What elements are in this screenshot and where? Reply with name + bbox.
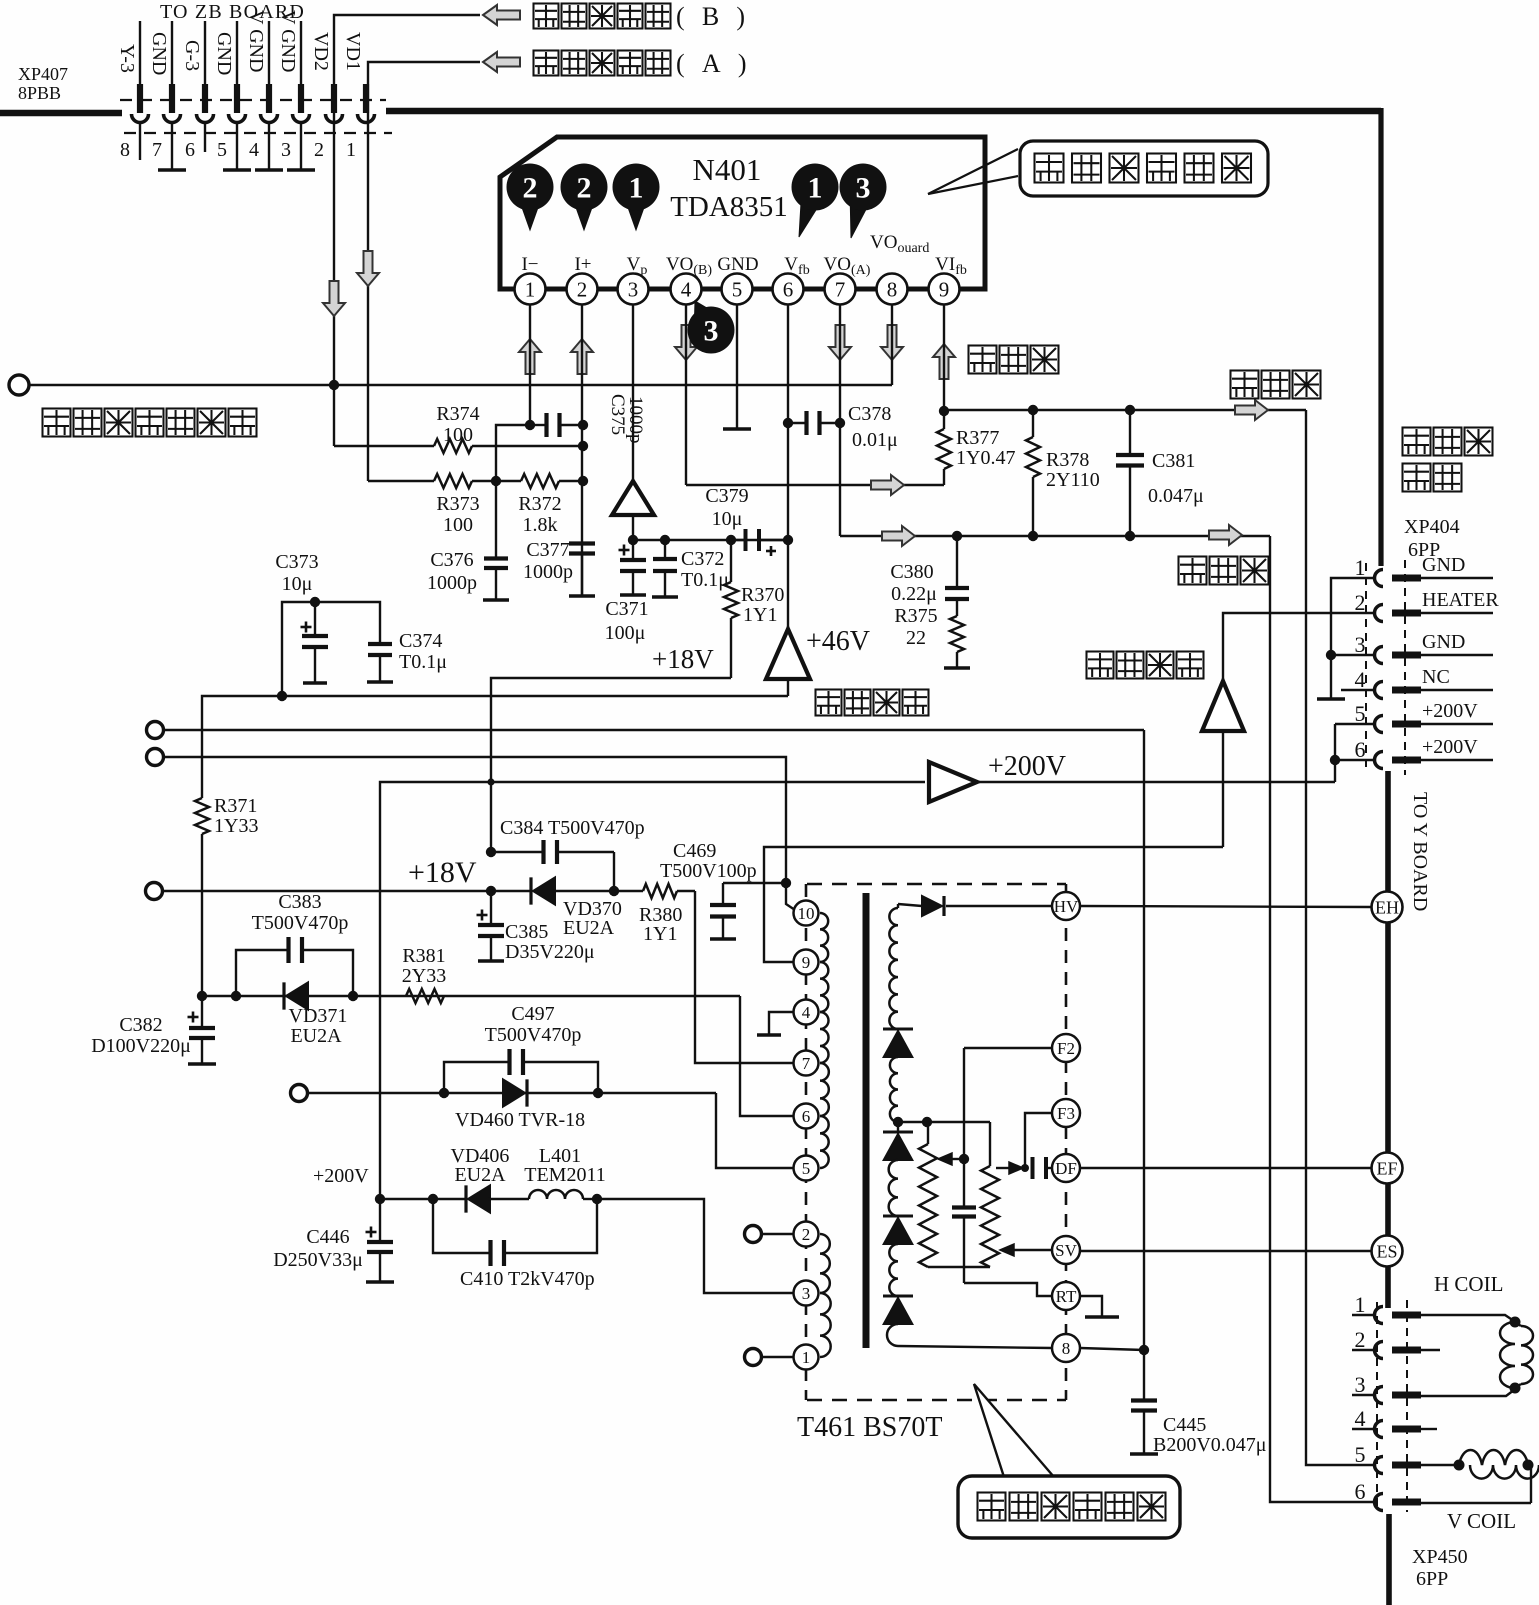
focus divider bottom row [928, 1266, 990, 1268]
svg-text:+18V: +18V [408, 856, 477, 889]
svg-text:6: 6 [185, 139, 195, 161]
wire F3 to DF junction [1025, 1113, 1052, 1168]
svg-text:C377: C377 [526, 539, 569, 561]
transformer primary winding 9-4 [820, 962, 828, 1012]
label field output top (chang shuchu) [1231, 371, 1259, 399]
capacitor C377 1000p on pin2 line to ground [569, 541, 595, 545]
+200V rail from C446 node to XP404 pins 5-6 [380, 782, 925, 1199]
svg-text:( B ): ( B ) [676, 2, 751, 31]
node C446 top [375, 1194, 385, 1204]
wire IC pin 6 down [787, 304, 789, 540]
XP450 pin 6 [1375, 1494, 1384, 1511]
XP404 pin 4 NC [1375, 682, 1384, 699]
RT ground [1080, 1296, 1102, 1316]
transformer T461 pin 7 circle [794, 1051, 819, 1076]
wire F2 net vertical [963, 1048, 965, 1159]
svg-text:3: 3 [628, 278, 639, 302]
node R374 right on pin2 line [578, 441, 588, 451]
terminal ES circle [1372, 1236, 1403, 1267]
svg-text:EU2A: EU2A [454, 1164, 506, 1186]
transformer T461 pin 2 circle [794, 1222, 819, 1247]
svg-text:6PP: 6PP [1416, 1568, 1448, 1590]
svg-text:D100V220μ: D100V220μ [91, 1035, 191, 1057]
field output top descent to XP450 pin 5 [1306, 410, 1374, 1465]
HV rectifier diode pointing right [898, 904, 922, 906]
transformer T461 pin 9 circle [794, 950, 819, 975]
spurious junction dot at +18V crossing [487, 778, 494, 785]
transformer primary winding 6-5 [820, 1116, 829, 1168]
node C372 top [660, 535, 670, 545]
svg-text:Y-3: Y-3 [116, 44, 138, 73]
capacitor C446 D250V33u electrolytic [379, 1199, 381, 1240]
wire VD2 from XP407 pin 2 up to field drive B [334, 15, 480, 121]
capacitor C379 10u electrolytic horizontal [731, 539, 744, 541]
diode VD371 EU2A pointing left [282, 982, 285, 1009]
svg-text:10: 10 [798, 904, 815, 923]
IC internal balloon 2 above pin 2 [575, 205, 593, 230]
IC internal balloon 2 above pin 1 [521, 205, 539, 230]
transformer secondary winding section 4 [889, 1244, 898, 1296]
wire IC pin 1 down to C375 row [529, 304, 531, 425]
svg-text:1: 1 [802, 1348, 811, 1367]
diode VD370 EU2A pointing left [491, 890, 531, 892]
transformer primary winding 2-3 [820, 1234, 830, 1293]
wire F2 horizontal [964, 1047, 1052, 1049]
block arrow field drive signal A [483, 52, 520, 72]
screen potentiometer (SV) [989, 1122, 991, 1166]
IC N401 pin 6 [773, 274, 804, 305]
capacitor C372 T0.1u [664, 540, 666, 557]
svg-text:1: 1 [1355, 555, 1366, 580]
terminal input 3 (+18V rail) [146, 883, 163, 900]
svg-text:C371: C371 [605, 598, 648, 620]
svg-text:1000p: 1000p [625, 396, 646, 444]
svg-text:0.22μ: 0.22μ [891, 583, 937, 605]
svg-text:2: 2 [1355, 1327, 1366, 1352]
svg-text:1.8k: 1.8k [523, 514, 558, 536]
svg-text:VD460 TVR-18: VD460 TVR-18 [455, 1109, 585, 1131]
wire DF to EF [1080, 1167, 1372, 1169]
block arrow down on VD2 line [323, 281, 345, 316]
capacitor C376 1000p to ground [495, 481, 497, 557]
wire terminal2 toward flyback pin10 [164, 757, 786, 883]
IC N401 pin 2 [567, 274, 598, 305]
resistor R375 22 vertical [950, 616, 964, 652]
svg-text:TEM2011: TEM2011 [524, 1164, 605, 1186]
XP407 pin 3 (V GND) [300, 21, 302, 85]
svg-text:4: 4 [1355, 667, 1366, 692]
resistor R371 1Y33 vertical [195, 798, 209, 834]
H COIL inductor [1500, 1322, 1515, 1388]
svg-text:1000p: 1000p [427, 572, 477, 594]
node C497 right [593, 1088, 603, 1098]
XP404 pins 1-3 ground wire [1331, 578, 1374, 698]
+200V rail rise to XP404 pin6 [1334, 760, 1336, 782]
svg-text:100μ: 100μ [605, 622, 646, 644]
H COIL wiring [1421, 1315, 1514, 1321]
svg-text:C372: C372 [681, 548, 724, 570]
svg-text:1000p: 1000p [523, 561, 573, 583]
rectifier diode D1 in secondary [883, 1028, 913, 1031]
svg-text:7: 7 [835, 278, 846, 302]
transformer terminal column dashed line [1065, 884, 1068, 1400]
wire IC pin 4 down [685, 304, 687, 485]
svg-text:NC: NC [1422, 666, 1450, 688]
wire jog into flyback pin 10 [786, 883, 795, 910]
svg-text:C375: C375 [607, 394, 628, 435]
svg-text:2: 2 [577, 172, 592, 205]
svg-text:3: 3 [281, 139, 291, 161]
capacitor C380 0.22u [956, 536, 958, 586]
svg-text:H COIL: H COIL [1434, 1272, 1503, 1296]
block arrow down from IC pin 4 [675, 325, 697, 360]
svg-text:3: 3 [1355, 1372, 1366, 1397]
node C383 left [231, 991, 241, 1001]
svg-text:F2: F2 [1057, 1039, 1075, 1058]
svg-text:5: 5 [732, 278, 743, 302]
transformer terminal RT circle [1052, 1282, 1080, 1310]
svg-text:GND: GND [1422, 554, 1465, 576]
thick wire below XP450 pin 6 [1386, 1514, 1392, 1605]
wire IC pin 8 down to protection line [891, 304, 893, 385]
capacitor C384 T500V470p [491, 851, 542, 853]
XP404 pin 2 HEATER [1375, 605, 1384, 622]
label filament supply dengsi gongdian [1087, 652, 1114, 679]
block arrow field drive signal B [483, 5, 520, 25]
rectifier diode D4 in secondary [883, 1295, 913, 1298]
capacitor C382 D100V220u electrolytic [201, 996, 203, 1026]
heater net from XP404 pin2 [1223, 613, 1374, 681]
wire link C375 row to R373 row [496, 425, 530, 481]
node C497 left [439, 1088, 449, 1098]
svg-text:C384 T500V470p: C384 T500V470p [500, 817, 645, 839]
thick ground bus main segment [386, 108, 1381, 115]
wire pin6 line down to +46V triangle and retrace supply line [787, 540, 789, 629]
svg-text:2: 2 [1355, 590, 1366, 615]
svg-text:5: 5 [802, 1159, 811, 1178]
svg-text:C378: C378 [848, 403, 891, 425]
screen pot wiper arrow to DF cap [996, 1167, 1010, 1169]
svg-text:V COIL: V COIL [1447, 1509, 1516, 1533]
wire IC pin 9 down [943, 304, 945, 412]
svg-text:3: 3 [704, 315, 719, 348]
svg-text:6: 6 [1355, 737, 1366, 762]
node focus divider top [922, 1117, 932, 1127]
svg-text:( A ): ( A ) [676, 49, 753, 78]
svg-text:TO Y BOARD: TO Y BOARD [1409, 792, 1431, 911]
svg-text:100: 100 [443, 424, 473, 446]
XP450 pin 3 [1375, 1387, 1384, 1404]
wire +18V rail from terminal3 [163, 890, 491, 892]
retrace supply line (nicheng gongdian) [202, 696, 788, 798]
supply triangle filament (dengsi gongdian) [1202, 681, 1244, 731]
svg-text:6: 6 [802, 1107, 811, 1126]
wire IC pin 7 down [839, 304, 841, 536]
svg-text:HV: HV [1054, 897, 1079, 916]
thick wire to Y board [1385, 771, 1391, 1308]
svg-text:T500V470p: T500V470p [485, 1024, 582, 1046]
svg-text:XP407: XP407 [18, 64, 68, 84]
node Vp row left [628, 535, 638, 545]
label field failure protection control [43, 409, 71, 437]
wire IC pin 5 to ground [736, 304, 738, 428]
IC internal balloon 3 above pin 7 with VOguard label [850, 203, 867, 238]
diode VD406 EU2A pointing left [433, 1198, 466, 1200]
wire C445 vertical line down [1143, 730, 1145, 1399]
svg-text:EU2A: EU2A [563, 917, 615, 939]
IC N401 pin 5 [722, 274, 753, 305]
svg-text:1: 1 [629, 172, 644, 205]
ground bar at IC pin 5 [723, 427, 751, 431]
node F3/DF junction [1021, 1164, 1029, 1172]
XP404 pins 5-6 +200V link [1335, 723, 1374, 725]
svg-text:T0.1μ: T0.1μ [399, 651, 447, 673]
label to CRT circuit (qu xianxiang dianlu) [1403, 428, 1431, 456]
capacitor C374 T0.1u [368, 642, 392, 646]
+18V feed wire from R370 bottom [491, 678, 731, 852]
svg-text:N401: N401 [693, 152, 762, 187]
node L401 right [592, 1194, 602, 1204]
svg-text:I+: I+ [574, 254, 591, 275]
svg-text:4: 4 [802, 1003, 811, 1022]
XP450 pin 1 [1375, 1307, 1384, 1324]
XP404 pin 5 +200V [1375, 716, 1384, 733]
capacitor C497 T500V470p loop [444, 1062, 508, 1093]
terminal input 1 (to flyback pin8 net) [147, 722, 164, 739]
wire field failure protection control to IC pin 8 [29, 384, 892, 386]
node C375 right [578, 420, 588, 430]
transformer secondary winding section 2 [890, 1057, 898, 1122]
svg-text:VD1: VD1 [342, 32, 364, 71]
label field drive signal (A) [534, 51, 559, 76]
wire terminal1 to C445 line [164, 729, 1144, 731]
XP450 dashed pin columns [1376, 1302, 1378, 1512]
XP404 pin 6 +200V [1375, 752, 1384, 769]
wire to HV terminal [946, 905, 1052, 907]
svg-text:+200V: +200V [313, 1165, 369, 1187]
rectifier diode D3 in secondary [883, 1215, 913, 1218]
resistor R378 2Y110 vertical [1032, 410, 1034, 437]
svg-text:C385: C385 [505, 921, 548, 943]
node wiper to F2 line [959, 1154, 969, 1164]
transformer primary winding 10-9 [820, 913, 828, 962]
svg-text:1: 1 [808, 172, 823, 205]
thick bus corner down to XP404 [1378, 108, 1383, 566]
XP450 pin 2 [1375, 1342, 1384, 1359]
svg-text:GND: GND [717, 254, 758, 275]
terminal EH circle [1372, 892, 1403, 923]
svg-text:10μ: 10μ [712, 508, 743, 530]
terminal field failure protection control [9, 375, 29, 395]
wire R380 down to flyback pin 7 [695, 891, 794, 1063]
callout box line output transformer (hang huisao bianyaqi) [974, 1384, 1054, 1477]
supply triangle +200V pointing right [929, 762, 977, 802]
IC N401 pin 8 [877, 274, 908, 305]
svg-text:R381: R381 [402, 945, 445, 967]
capacitor C469 T500V100p [722, 883, 724, 903]
label field output bottom (chang shuchu) [1179, 557, 1207, 585]
IC internal balloon 1 above pin 6 [799, 202, 818, 237]
XP407 pin 1 (VD1) [363, 84, 369, 113]
svg-text:C445: C445 [1163, 1414, 1206, 1436]
svg-text:F3: F3 [1057, 1104, 1075, 1123]
svg-text:R373: R373 [436, 493, 479, 515]
wire terminal8 to C445 line [1080, 1348, 1144, 1350]
svg-text:5: 5 [217, 139, 227, 161]
svg-text:VD371: VD371 [289, 1005, 348, 1027]
wire IC pin 2 down to C377 [581, 304, 583, 596]
block arrow down from IC pin 8 [881, 325, 903, 360]
svg-text:EH: EH [1375, 898, 1399, 918]
svg-text:5: 5 [1355, 1442, 1366, 1467]
svg-text:V GND: V GND [277, 10, 299, 72]
XP407 pin 8 (Y-3) [139, 21, 141, 85]
DF coupling capacitor [1031, 1157, 1035, 1179]
svg-text:22: 22 [906, 627, 926, 649]
node terminal8 C445 junction [1139, 1345, 1149, 1355]
label retrace supply nicheng gongdian [816, 690, 842, 716]
node VD370 left junction [486, 886, 496, 896]
svg-text:C382: C382 [119, 1014, 162, 1036]
XP407 pin 4 (V GND) [268, 21, 270, 85]
capacitor C385 D35V220u electrolytic [490, 891, 492, 923]
svg-text:XP450: XP450 [1412, 1546, 1468, 1568]
svg-text:6: 6 [1355, 1479, 1366, 1504]
svg-text:XP404: XP404 [1404, 516, 1460, 538]
diode VD460 TVR-18 pointing right [503, 1079, 525, 1106]
svg-text:2: 2 [523, 172, 538, 205]
svg-text:3: 3 [802, 1284, 811, 1303]
svg-text:R375: R375 [894, 605, 937, 627]
transformer terminal SV circle [1052, 1236, 1080, 1264]
field output top row [944, 409, 1306, 411]
svg-text:5: 5 [1355, 701, 1366, 726]
op-amp U1 IC N401 TDA8351 outline [500, 137, 985, 289]
row C382-C383-VD371-R381 [202, 995, 740, 997]
terminal EF circle [1372, 1153, 1403, 1184]
transformer T461 pin 4 circle [794, 1000, 819, 1025]
svg-text:TDA8351: TDA8351 [670, 191, 788, 223]
transformer terminal HV circle [1052, 892, 1080, 920]
internal capacitor in focus pack [952, 1205, 976, 1209]
svg-text:C446: C446 [306, 1226, 349, 1248]
svg-text:VD2: VD2 [310, 32, 332, 71]
wire C469 top connection [723, 882, 786, 884]
svg-text:C410 T2kV470p: C410 T2kV470p [460, 1268, 595, 1290]
IC N401 pin 7 [825, 274, 856, 305]
wire secondary bottom to terminal 8 [898, 1346, 1052, 1348]
capacitor C445 B200V0.047u [1131, 1398, 1157, 1402]
svg-text:1Y1: 1Y1 [643, 923, 677, 945]
transformer T461 core bar [863, 893, 870, 1348]
block arrow up into IC pin 9 [933, 344, 955, 379]
terminal input 4 (boost to VD460) [291, 1085, 308, 1102]
svg-text:EF: EF [1376, 1159, 1397, 1179]
capacitor C410 T2kV470p loop [433, 1199, 489, 1253]
svg-text:V GND: V GND [245, 10, 267, 72]
node C378 left on pin6 line [783, 418, 793, 428]
svg-text:C374: C374 [399, 630, 442, 652]
wire F2 net to RT [964, 1283, 1052, 1296]
block arrow right on VO(A) row near pin7 [882, 526, 915, 546]
wire HV to EH [1080, 906, 1372, 907]
svg-text:R378: R378 [1046, 449, 1089, 471]
node R378 top [1028, 405, 1038, 415]
svg-text:4: 4 [249, 139, 259, 161]
focus pot wiper arrow [938, 1153, 952, 1165]
node R378 bottom [1028, 531, 1038, 541]
field output bottom descent to XP450 pin 6 [1270, 536, 1374, 1502]
IC internal balloon 1 above pin 3 [627, 205, 645, 230]
svg-text:1: 1 [1355, 1292, 1366, 1317]
transformer T461 pin 1 circle [794, 1345, 819, 1370]
row Vp decoupling [633, 539, 788, 541]
transformer pin 4 ground [769, 1012, 793, 1034]
svg-text:D35V220μ: D35V220μ [505, 941, 595, 963]
XP404 pin 3 GND [1375, 647, 1384, 664]
node C381 bottom [1125, 531, 1135, 541]
XP404 dashed pin columns [1365, 563, 1367, 772]
wire VD1 down to R373 row [367, 121, 369, 481]
svg-text:7: 7 [802, 1054, 811, 1073]
rectifier diode D2 in secondary [897, 1122, 899, 1132]
transformer terminal F3 circle [1052, 1099, 1080, 1127]
resistor R372 1.8k [496, 480, 521, 482]
node C375 left [525, 420, 535, 430]
svg-text:I−: I− [521, 254, 538, 275]
svg-text:+200V: +200V [1422, 736, 1478, 758]
svg-text:1: 1 [346, 139, 356, 161]
XP450 pin 4 [1375, 1421, 1384, 1438]
node VD370 right [609, 886, 619, 896]
wire C373/C374 row to retrace line [282, 602, 380, 696]
label field feedback (chang fankui) [969, 346, 997, 374]
inductor L401 TEM2011 [529, 1190, 583, 1199]
XP407 pin 5 (GND) [236, 21, 238, 85]
label field drive signal (B) [534, 4, 559, 29]
svg-text:3: 3 [1355, 632, 1366, 657]
resistor R381 2Y33 [406, 989, 444, 1003]
svg-text:8: 8 [1062, 1339, 1071, 1358]
thick ground bus left segment [0, 110, 122, 117]
svg-text:6: 6 [783, 278, 794, 302]
XP450 pin 5 [1375, 1457, 1384, 1474]
XP407 pin 2 (VD2) [331, 84, 337, 113]
transformer primary winding 4-7 [820, 1012, 829, 1063]
transformer left pin column dashed line [805, 884, 808, 1400]
node junction VD2 line with protection line [329, 380, 339, 390]
svg-text:2: 2 [314, 139, 324, 161]
V COIL inductor [1421, 1464, 1459, 1466]
row VD406 L401 [380, 1198, 433, 1200]
svg-text:R370: R370 [741, 584, 784, 606]
node C378 right [835, 418, 845, 428]
focus network tap row [898, 1121, 990, 1123]
node C384 top-left [486, 847, 496, 857]
transformer primary winding 3-1 [820, 1293, 831, 1357]
transformer T461 pin 5 circle [794, 1156, 819, 1181]
resistor R373 100 row [368, 480, 434, 482]
node VD406 left [428, 1194, 438, 1204]
node pin10 riser junction [781, 878, 791, 888]
node secondary tap [893, 1117, 903, 1127]
node C383 right [348, 991, 358, 1001]
svg-text:RT: RT [1056, 1287, 1077, 1306]
svg-text:HEATER: HEATER [1422, 589, 1499, 611]
svg-text:C380: C380 [890, 561, 933, 583]
svg-text:8PBB: 8PBB [18, 83, 61, 103]
wire VD2 down to R374 row [333, 121, 335, 446]
